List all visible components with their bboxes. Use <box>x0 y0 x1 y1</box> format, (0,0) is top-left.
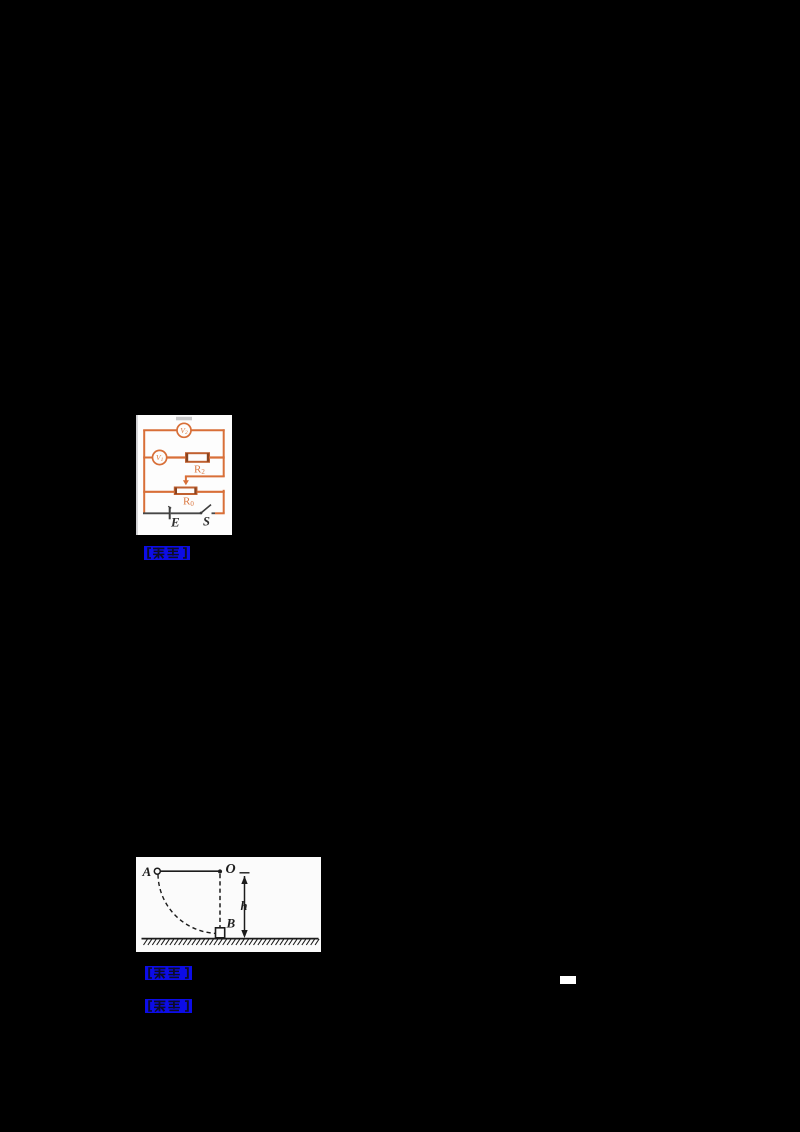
ground hatching <box>143 939 319 945</box>
block at B <box>215 928 224 938</box>
wire: right vertical lower <box>223 490 225 513</box>
gray tab at top <box>176 417 192 420</box>
wire: left vertical <box>143 430 145 513</box>
switch lever <box>201 505 211 513</box>
h arrow down <box>241 930 247 938</box>
tick at O level <box>239 872 249 874</box>
circuit figure panel (white scanned image) <box>136 415 232 535</box>
wire: row3 right <box>196 491 224 493</box>
string dashed vertical <box>219 874 221 927</box>
pendulum figure panel (white scanned image) <box>136 857 322 952</box>
wire: row2 R2 to right <box>209 457 225 459</box>
wiper arrowhead <box>183 480 189 485</box>
voltmeter V2 <box>177 423 191 437</box>
answer tag 1 (blue highlight) <box>144 545 190 561</box>
ground line <box>141 938 318 940</box>
svg-text:h: h <box>240 899 247 913</box>
swing arc dashed <box>158 875 218 934</box>
wire: row2 stub left <box>143 457 152 459</box>
point A open circle <box>154 868 160 874</box>
svg-text:E: E <box>170 514 180 529</box>
answer tag 3 (blue highlight) <box>145 998 192 1014</box>
resistor R2 <box>186 453 209 462</box>
rheostat R0 <box>175 488 197 494</box>
wire: wiper vertical <box>185 477 187 482</box>
wire: bottom left dark <box>143 512 170 514</box>
svg-text:S: S <box>203 514 210 528</box>
point O dot <box>217 869 221 873</box>
answer tag 2 (blue highlight) <box>145 965 192 981</box>
wire: top horizontal <box>143 429 177 431</box>
switch fixed contact wire <box>211 512 214 514</box>
svg-text:O: O <box>225 862 235 877</box>
wire: jog horizontal <box>185 476 225 478</box>
h arrow up <box>241 876 247 884</box>
small white mark <box>560 976 576 984</box>
svg-text:B: B <box>225 916 235 931</box>
voltmeter V1 <box>153 451 167 465</box>
svg-text:A: A <box>141 864 151 879</box>
wire: battery to switch <box>171 512 200 514</box>
wire: right vertical upper <box>223 429 225 476</box>
wire: row2 V1 to R2 <box>167 457 186 459</box>
battery E plate <box>169 507 171 519</box>
svg-text:R2: R2 <box>194 463 205 475</box>
h measure line <box>243 876 245 936</box>
switch pivot <box>200 512 203 515</box>
line A to O <box>160 870 220 872</box>
scan edge shading <box>136 415 138 535</box>
wire: row3 left <box>143 491 175 493</box>
wire: bottom right orange <box>215 512 225 514</box>
svg-text:R0: R0 <box>183 495 194 507</box>
